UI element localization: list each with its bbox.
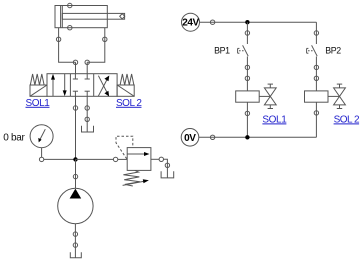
node circle at valve port B bbox=[85, 60, 89, 64]
pressure gauge bbox=[30, 125, 53, 158]
tank under pump bbox=[70, 252, 81, 258]
svg-text:0 bar: 0 bar bbox=[3, 132, 25, 143]
spring left (valve return) bbox=[30, 74, 44, 85]
spring right (valve return) bbox=[120, 74, 134, 85]
svg-text:BP1: BP1 bbox=[214, 46, 230, 56]
tank at relief outlet bbox=[161, 171, 174, 178]
wire branch 2 middle bbox=[315, 57, 317, 91]
svg-text:0V: 0V bbox=[184, 133, 196, 144]
relief valve pilot line (dashed) bbox=[116, 136, 133, 159]
wire valve port T down to tank bbox=[86, 96, 88, 132]
node circle at suction tank bbox=[73, 243, 77, 247]
wire branch 1 upper bbox=[246, 22, 248, 44]
node circle below pump bbox=[73, 232, 77, 236]
node circle on T line bbox=[85, 106, 89, 110]
svg-text:SOL1: SOL1 bbox=[26, 98, 51, 109]
node circle on P line bbox=[73, 106, 77, 110]
svg-text:24V: 24V bbox=[182, 18, 199, 29]
svg-text:SOL 2: SOL 2 bbox=[334, 114, 360, 125]
wire branch 1 middle bbox=[246, 57, 248, 91]
supply 0V bbox=[181, 129, 199, 147]
wire gauge to junction bbox=[44, 158, 76, 160]
node circle on top rail bbox=[210, 20, 214, 24]
solenoid right (SOL2 coil on valve) bbox=[117, 85, 134, 96]
node circle at valve port A bbox=[73, 60, 77, 64]
wire junction to relief valve bbox=[76, 158, 114, 160]
relief valve spring with adjust arrow bbox=[123, 170, 149, 186]
wire pump to tank bbox=[74, 224, 76, 258]
node circle bbox=[314, 76, 318, 80]
svg-text:BP2: BP2 bbox=[325, 46, 341, 56]
node circle on rod-end wire bbox=[103, 37, 107, 41]
cylinder port circle bottom bbox=[68, 26, 72, 30]
cylinder A (double-acting) body bbox=[55, 6, 107, 28]
valve centre cell blocked port tees bbox=[73, 74, 90, 97]
node circle at outlet tank bbox=[165, 163, 169, 167]
coil SOL2 valve icon bbox=[328, 84, 345, 108]
node circle below coil2 bbox=[314, 111, 318, 115]
wire branch 2 lower bbox=[315, 102, 317, 137]
node circle relief outlet bbox=[159, 157, 163, 161]
junction dot main line bbox=[73, 157, 77, 161]
node circle gauge port bbox=[39, 157, 43, 161]
node circle bbox=[314, 65, 318, 69]
relief valve body bbox=[127, 148, 151, 171]
junction dot top rail bbox=[245, 20, 249, 24]
valve right cell crossed arrows bbox=[98, 76, 109, 97]
valve V1 4/3 directional body bbox=[47, 74, 117, 97]
node circle bbox=[245, 65, 249, 69]
valve left cell arrow down bbox=[63, 74, 67, 96]
tank under valve bbox=[82, 126, 94, 132]
supply 24V bbox=[182, 13, 200, 31]
wire junction to pump bbox=[75, 159, 77, 188]
pump P1 bbox=[58, 188, 93, 223]
cylinder port circle top bbox=[68, 3, 72, 7]
rail 24V top bbox=[200, 21, 317, 23]
node circle branch2 top bbox=[314, 31, 318, 35]
wire relief outlet to tank bbox=[151, 158, 159, 160]
node circle on bottom rail bbox=[210, 135, 214, 139]
coil SOL1 bbox=[236, 91, 260, 102]
node circle pump inlet bbox=[73, 174, 77, 178]
svg-text:SOL 2: SOL 2 bbox=[116, 98, 142, 109]
valve left cell arrow up bbox=[51, 74, 55, 96]
junction dot bottom rail bbox=[245, 135, 249, 139]
node circle on cap-end wire bbox=[56, 37, 60, 41]
wire branch 2 upper bbox=[315, 22, 317, 44]
node circle relief inlet bbox=[113, 157, 117, 161]
coil SOL2 bbox=[305, 91, 329, 102]
push button BP2 bbox=[307, 45, 318, 56]
wire valve port P down to pump line bbox=[75, 96, 77, 159]
solenoid left (SOL1 coil on valve) bbox=[30, 85, 47, 96]
wire cylinder cap-end to valve port A bbox=[59, 28, 76, 63]
node circle at tank inlet bbox=[85, 117, 89, 121]
wire cylinder rod-end to valve port B bbox=[87, 28, 105, 63]
coil SOL1 valve icon bbox=[259, 84, 276, 108]
rail 0V bottom bbox=[199, 136, 317, 138]
node circle bbox=[245, 76, 249, 80]
cylinder piston rod bbox=[62, 13, 124, 19]
node circle branch1 top bbox=[245, 31, 249, 35]
wire branch 1 lower bbox=[246, 102, 248, 137]
svg-text:SOL1: SOL1 bbox=[262, 114, 287, 125]
push button BP1 bbox=[238, 45, 249, 56]
node circle below coil bbox=[245, 111, 249, 115]
